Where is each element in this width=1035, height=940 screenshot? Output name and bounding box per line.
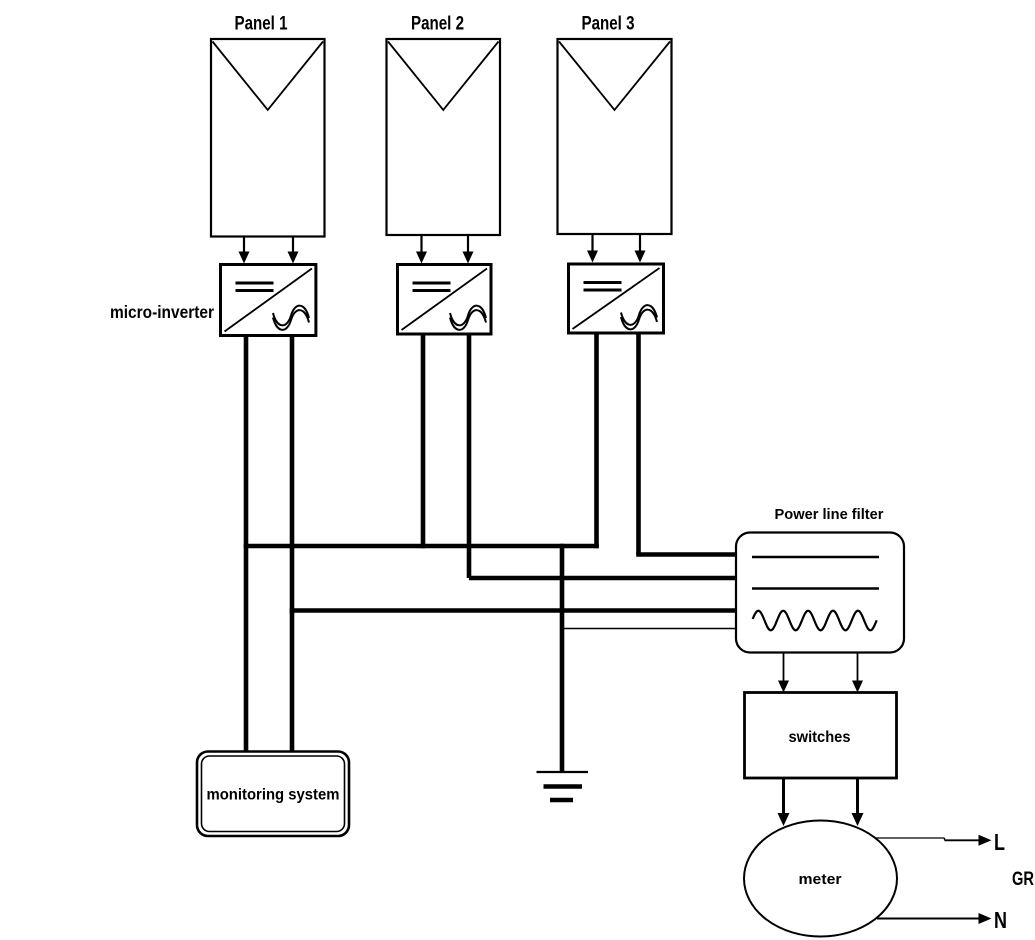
svg-text:switches: switches	[789, 729, 851, 746]
svg-text:Panel 2: Panel 2	[411, 14, 464, 35]
svg-text:N: N	[994, 907, 1007, 933]
svg-text:L: L	[994, 829, 1005, 855]
svg-text:Panel 1: Panel 1	[235, 14, 288, 35]
svg-text:meter: meter	[799, 871, 842, 888]
svg-text:monitoring system: monitoring system	[207, 787, 340, 804]
svg-text:GR: GR	[1012, 869, 1034, 890]
svg-text:micro-inverter: micro-inverter	[110, 302, 214, 322]
svg-text:Power line filter: Power line filter	[775, 506, 884, 523]
svg-text:Panel 3: Panel 3	[582, 14, 635, 35]
